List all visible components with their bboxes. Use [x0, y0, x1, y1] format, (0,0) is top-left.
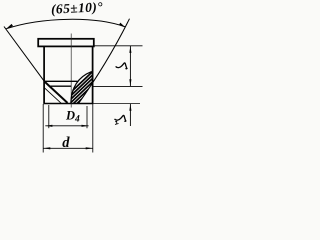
hatch line left triangle: [44, 88, 61, 103]
D4 extension line right: [86, 106, 88, 128]
l1 dimension line: [129, 104, 131, 126]
wedge hatch 6: [76, 70, 112, 105]
angle extension line left L1: [4, 27, 44, 82]
wedge hatch 5: [72, 70, 108, 105]
angle extension line right L2: [79, 19, 130, 104]
D4 dimension line: [45, 125, 88, 127]
label l (cursive ell, rotated on page): [116, 63, 127, 69]
body wall right: [92, 46, 94, 103]
D4 arrow left: [45, 125, 52, 127]
angle dimension arc: [6, 19, 125, 28]
l dimension bottom extension line: [93, 85, 143, 87]
l dimension arrow down: [129, 79, 131, 86]
wedge hatch 3: [65, 70, 101, 105]
l dimension arrow up: [129, 46, 131, 53]
body wall left: [43, 46, 45, 103]
countersink right wall profile (radius form, curved): [71, 72, 92, 104]
countersink opening line A: [44, 80, 77, 82]
d arrow right: [86, 147, 93, 149]
angle arc arrowhead right: [119, 23, 125, 28]
svg-text:D4: D4: [65, 109, 80, 125]
wedge hatch 4: [69, 70, 105, 105]
D4 arrow right: [82, 125, 89, 127]
centerline: [70, 34, 72, 108]
wedge hatch 2: [62, 70, 98, 105]
recess line B: [49, 85, 72, 87]
d dimension line: [43, 147, 93, 149]
svg-text:(65±10)°: (65±10)°: [51, 0, 104, 17]
angle arc arrowhead left: [6, 24, 13, 29]
l1 dimension arrow up: [129, 104, 131, 111]
countersink left wall W1: [44, 81, 67, 103]
d extension line right: [92, 104, 94, 153]
d extension line left: [42, 104, 44, 153]
bottom line extension to l1 dimension: [93, 103, 140, 105]
wedge hatch 7: [80, 70, 116, 105]
D4 extension line left: [48, 105, 50, 128]
flange outline: [38, 39, 94, 47]
l dimension top extension line: [95, 45, 143, 47]
label l1 (cursive ell with subscript, rotated on page): [115, 115, 126, 121]
svg-text:d: d: [62, 135, 70, 151]
subscript 1 of l1: [115, 121, 119, 124]
l dimension line: [129, 46, 131, 86]
bottom line C: [43, 103, 93, 105]
wedge hatch 1: [58, 70, 94, 105]
d arrow left: [43, 147, 50, 149]
